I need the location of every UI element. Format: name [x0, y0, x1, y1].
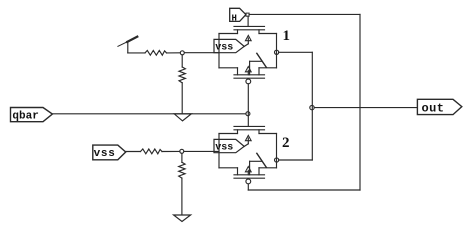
svg-text:vss: vss	[94, 148, 116, 160]
svg-text:2: 2	[282, 135, 290, 151]
svg-text:vss: vss	[215, 43, 233, 54]
svg-text:H: H	[232, 13, 237, 23]
svg-text:qbar: qbar	[12, 111, 38, 123]
svg-text:out: out	[422, 102, 445, 116]
svg-text:vss: vss	[215, 143, 233, 154]
svg-text:1: 1	[283, 28, 291, 44]
